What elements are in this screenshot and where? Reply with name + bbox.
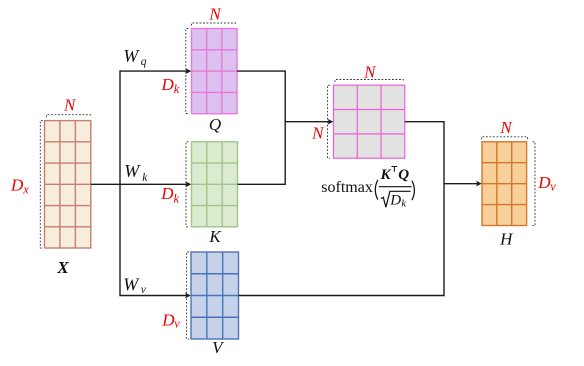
arrowhead into K bbox=[186, 181, 192, 187]
svg-text:W: W bbox=[124, 161, 141, 181]
svg-text:D: D bbox=[161, 75, 175, 94]
bracket Dx left of X bbox=[40, 121, 43, 248]
svg-text:k: k bbox=[142, 172, 148, 184]
matrix K grid bbox=[192, 142, 238, 227]
svg-text:H: H bbox=[499, 230, 514, 249]
svg-text:softmax: softmax bbox=[321, 179, 373, 196]
svg-text:N: N bbox=[208, 4, 222, 23]
bracket N over Q bbox=[192, 23, 236, 26]
numerator transpose bbox=[391, 167, 397, 172]
matrix X grid bbox=[45, 121, 91, 248]
bracket Dv right of H bbox=[533, 142, 536, 226]
svg-text:D: D bbox=[160, 184, 174, 203]
bracket N left of S bbox=[328, 85, 331, 158]
bracket Dv left of V bbox=[187, 252, 190, 339]
wire trunk vertical bbox=[119, 70, 121, 296]
bracket Dk left of K bbox=[186, 142, 189, 227]
arrowhead into S bbox=[328, 119, 334, 125]
svg-text:x: x bbox=[22, 182, 29, 196]
svg-text:N: N bbox=[363, 62, 377, 81]
close paren bbox=[412, 181, 415, 201]
bracket N over H bbox=[482, 137, 528, 140]
svg-text:k: k bbox=[401, 198, 406, 209]
svg-text:K: K bbox=[208, 227, 222, 246]
svg-text:k: k bbox=[174, 191, 180, 205]
matrix V grid bbox=[191, 252, 239, 339]
svg-text:N: N bbox=[311, 123, 325, 142]
svg-text:D: D bbox=[537, 173, 551, 192]
arrowhead into V bbox=[185, 293, 191, 299]
wire X output bbox=[91, 183, 120, 185]
svg-text:D: D bbox=[389, 193, 401, 209]
svg-text:Q: Q bbox=[209, 115, 221, 134]
svg-text:k: k bbox=[174, 82, 180, 96]
svg-text:X: X bbox=[56, 258, 69, 277]
fraction bar bbox=[379, 186, 412, 188]
softmax formula bbox=[321, 167, 414, 210]
wire into softmax bbox=[285, 121, 331, 123]
svg-text:W: W bbox=[123, 274, 140, 294]
arrowhead into H bbox=[476, 181, 482, 187]
svg-text:K: K bbox=[380, 167, 392, 183]
svg-text:v: v bbox=[550, 180, 556, 194]
svg-text:D: D bbox=[10, 176, 24, 195]
bracket N over X bbox=[47, 115, 91, 118]
svg-text:D: D bbox=[161, 311, 175, 330]
radical sign bbox=[381, 191, 411, 207]
matrix H grid bbox=[482, 142, 527, 226]
wire S output bbox=[239, 122, 445, 296]
svg-text:v: v bbox=[141, 284, 147, 296]
wire into H bbox=[444, 183, 480, 185]
svg-text:q: q bbox=[141, 56, 147, 68]
bracket N over S bbox=[335, 80, 403, 83]
svg-text:W: W bbox=[123, 46, 140, 66]
wire Wq branch bbox=[120, 70, 189, 72]
bracket Dk left of Q bbox=[186, 29, 189, 114]
wire Q output bbox=[237, 71, 285, 184]
arrowhead into Q bbox=[186, 68, 192, 74]
wire Wv branch bbox=[120, 295, 189, 297]
svg-text:N: N bbox=[63, 96, 77, 115]
svg-text:N: N bbox=[499, 118, 513, 137]
wire Wk branch bbox=[120, 183, 189, 185]
svg-text:Q: Q bbox=[398, 167, 409, 183]
matrix Q grid bbox=[192, 29, 238, 114]
matrix S (softmax result) grid bbox=[334, 85, 405, 158]
svg-text:v: v bbox=[174, 317, 180, 331]
open paren bbox=[375, 180, 378, 200]
